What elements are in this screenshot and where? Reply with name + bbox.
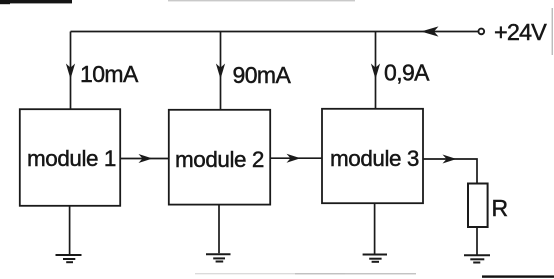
current arrowhead down module 2 — [216, 64, 225, 80]
ground at resistor R — [464, 255, 490, 262]
arrowhead module 2 to module 3 — [287, 154, 301, 163]
terminal +24V open circle — [478, 29, 484, 35]
wire module 3 to resistor R — [423, 159, 477, 184]
svg-text:+24V: +24V — [494, 19, 547, 45]
svg-text:module 2: module 2 — [175, 147, 264, 172]
wire drop to module 3 — [375, 32, 377, 109]
wire module 1 to module 2 — [120, 158, 169, 160]
ground at module 3 — [363, 255, 387, 262]
module 1 box — [20, 109, 120, 206]
wire resistor R bottom lead — [476, 227, 478, 255]
arrowhead on supply rail pointing left — [421, 26, 439, 36]
wire drop to module 1 — [70, 32, 72, 109]
resistor R — [468, 184, 488, 228]
svg-text:module 3: module 3 — [330, 146, 419, 171]
arrowhead module 1 to module 2 — [139, 154, 153, 163]
svg-text:90mA: 90mA — [233, 62, 292, 88]
current arrowhead down module 3 — [371, 64, 380, 80]
wire module 3 to ground — [374, 203, 376, 253]
module 3 box — [322, 109, 423, 203]
wire module 1 to ground — [69, 206, 71, 254]
arrowhead module 3 to resistor — [443, 155, 457, 164]
svg-text:R: R — [492, 195, 509, 221]
svg-text:0,9A: 0,9A — [384, 59, 430, 85]
ground at module 1 — [56, 255, 82, 262]
current arrowhead down module 1 — [66, 64, 75, 80]
wire module 2 to module 3 — [270, 157, 322, 159]
wire module 2 to ground — [218, 205, 220, 254]
svg-text:module 1: module 1 — [27, 146, 116, 171]
module 2 box — [169, 110, 270, 205]
svg-text:10mA: 10mA — [80, 61, 139, 87]
wire drop to module 2 — [220, 32, 222, 110]
ground at module 2 — [206, 254, 231, 261]
wire top +24V supply rail — [71, 31, 479, 33]
